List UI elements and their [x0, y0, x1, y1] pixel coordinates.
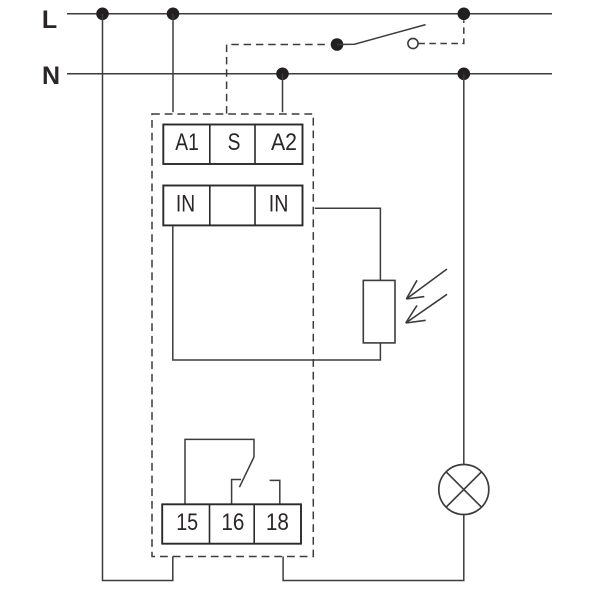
terminal label A2	[271, 129, 297, 156]
switch S1 lever	[337, 25, 426, 45]
terminal label A1	[175, 129, 199, 156]
light arrow 1	[406, 269, 447, 299]
terminal label 16	[221, 509, 244, 536]
svg-text:A2: A2	[271, 129, 297, 156]
dashed control line from terminal S to switch	[227, 45, 329, 114]
svg-text:IN: IN	[269, 190, 289, 217]
wire from L to terminal A1	[172, 14, 174, 112]
light arrow 2	[406, 294, 447, 323]
terminal label IN left	[176, 190, 195, 217]
relay contact hook at terminal 16	[232, 480, 241, 505]
relay contact hook at terminal 18	[270, 480, 280, 504]
junction on L at switch return	[458, 8, 471, 21]
junction on L at left wire	[96, 8, 109, 21]
wire from N down to lamp	[463, 74, 465, 465]
relay contact: riser from terminal 15	[185, 439, 254, 504]
dashed wire from switch contact up to L	[418, 20, 463, 43]
terminal label S	[228, 129, 241, 156]
node L label	[42, 6, 57, 34]
junction on L at A1 wire	[167, 8, 180, 21]
wire from L down left side and along bottom to terminal 15	[103, 14, 173, 581]
junction on N at lamp wire	[458, 68, 471, 81]
svg-text:L: L	[42, 6, 57, 34]
svg-text:15: 15	[176, 509, 198, 536]
wire from IN right to photoresistor top	[315, 208, 381, 280]
switch S1 pivot junction	[331, 38, 344, 51]
svg-text:IN: IN	[176, 190, 195, 217]
switch S1 open contact	[408, 38, 418, 48]
svg-text:16: 16	[221, 509, 244, 536]
svg-text:N: N	[42, 62, 60, 90]
terminal label 15	[176, 509, 198, 536]
wire from N to terminal A2	[282, 74, 284, 112]
svg-text:A1: A1	[175, 129, 199, 156]
terminal label IN right	[269, 190, 289, 217]
wire from photoresistor bottom looping back to IN left	[173, 226, 381, 360]
terminal block A1 S A2	[163, 125, 302, 165]
dashed device enclosure box	[152, 114, 313, 557]
svg-text:S: S	[228, 129, 241, 156]
lamp E1	[439, 465, 489, 515]
svg-text:18: 18	[266, 509, 289, 536]
photoresistor R1 body	[363, 280, 395, 343]
wire N line	[67, 73, 552, 75]
wire L line	[67, 13, 552, 15]
node N label	[42, 62, 60, 90]
terminal label 18	[266, 509, 289, 536]
relay contact blade	[239, 457, 254, 487]
wire from terminal 18 to lamp bottom	[283, 515, 464, 581]
junction on N at A2 wire	[276, 68, 289, 81]
terminal block IN IN	[163, 186, 302, 226]
terminal block 15 16 18	[162, 504, 301, 543]
